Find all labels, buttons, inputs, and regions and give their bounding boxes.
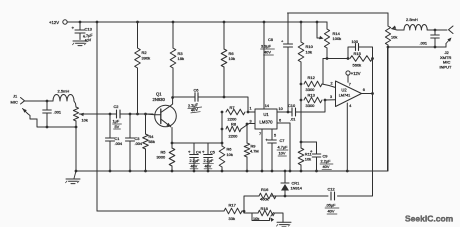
wire U2 pin 4 ground lead [346,103,348,171]
node tip-C1a [46,100,49,103]
wire feedback riser [322,59,324,85]
svg-text:7: 7 [259,132,261,136]
svg-text:5V: 5V [115,124,120,129]
node base-R2 [136,113,139,116]
capacitor C10 series to op amp [291,108,293,116]
svg-text:14: 14 [265,104,269,108]
svg-text:+12V: +12V [49,20,59,25]
svg-text:6: 6 [279,119,281,123]
svg-text:40V: 40V [205,165,212,169]
resistor R17 [224,208,242,214]
svg-text:6: 6 [363,88,365,92]
capacitor C8 coupling to level pot [287,13,289,44]
svg-text:INPUT: INPUT [440,64,453,69]
svg-text:.001: .001 [54,110,62,115]
wire R6 top lead [223,22,225,49]
svg-text:2.2μF: 2.2μF [204,159,214,163]
wire audio feed line top [288,12,389,14]
svg-text:10: 10 [279,107,283,111]
svg-text:2: 2 [331,82,333,86]
node gnd-U2pin4 [346,170,349,173]
resistor R11 [298,148,304,165]
svg-text:7: 7 [349,82,351,86]
node divider [243,210,246,213]
terminal +12V supply [63,20,67,24]
wire C6 to U1 pin 1 [198,97,255,112]
node gnd-R11 [300,170,303,173]
svg-text:400k: 400k [260,197,269,202]
svg-text:+: + [72,26,75,31]
node sleeve-cap [46,126,49,129]
svg-text:1N914: 1N914 [291,186,303,191]
svg-text:U2: U2 [341,88,347,93]
capacitor C2 series [116,110,118,118]
node column-R8 [221,128,224,131]
svg-text:3: 3 [250,120,252,124]
node collector [171,96,174,99]
resistor R15 feedback [350,56,373,62]
svg-text:4: 4 [349,104,351,108]
node rail-C13 [79,21,82,24]
wire R2 top lead [137,22,139,48]
node rail-R3 [172,21,175,24]
wire feedback top run [323,58,348,60]
node gnd-U1pin6 [289,170,292,173]
ground symbol left [74,171,76,179]
svg-text:U1: U1 [263,112,269,117]
resistor R12 [304,81,322,87]
jack J1 sleeve contact arrow [28,114,38,120]
node gnd-C3 [129,170,132,173]
node L2-C11 [434,29,437,32]
svg-text:560k: 560k [353,63,362,68]
diode CR1 1N914 [284,170,287,173]
wire +12V drop to bias network [96,22,98,211]
wire R18 right to ground [275,213,284,222]
svg-text:18k: 18k [178,56,184,61]
ground symbol right [277,221,291,223]
node R13-C10 [324,99,327,102]
svg-text:.01: .01 [290,117,295,122]
svg-text:10V: 10V [279,151,286,156]
wire signal to C2 [90,113,116,115]
wire U2 pin 7 supply [347,75,349,82]
capacitor C3 [129,114,131,138]
node R1-sleeve [75,126,78,129]
node rail-bias-drop [96,21,99,24]
node C6wire-R6 [223,96,226,99]
wire R1 bottom to ground rail [75,121,77,171]
node signal-C3 [129,113,132,116]
svg-text:C13: C13 [85,27,93,32]
node CR1-sidechain [284,195,287,198]
node rail-R2 [136,21,139,24]
node rail-U1pin14 [263,21,266,24]
ground rail [76,170,388,172]
wire R2 to base node [137,68,139,114]
svg-text:10k: 10k [306,50,312,55]
svg-text:.004: .004 [115,141,123,146]
svg-text:33k: 33k [229,216,235,221]
node bias-R13 [300,99,303,102]
svg-text:R6: R6 [227,147,232,152]
node column-R7 [221,111,224,114]
capacitor C13 [79,22,81,30]
svg-text:68k: 68k [149,139,155,144]
potentiometer R19 output level [385,26,390,45]
svg-text:10k: 10k [227,152,233,157]
capacitor C5 [207,143,209,154]
svg-text:R2: R2 [142,50,148,55]
svg-text:10k: 10k [229,56,235,61]
svg-text:3000: 3000 [157,155,166,160]
wire U1 pin 6 lead [277,123,290,171]
node C11 bottom [434,46,437,49]
svg-text:2.2μF: 2.2μF [190,159,200,163]
jack J2 tip contact [449,26,454,34]
node feedback-R14 [326,57,329,60]
wire collector to C6 [173,96,195,98]
capacitor C6 series [194,93,196,102]
IC U1 LM370 [255,109,277,129]
svg-text:R12: R12 [308,75,316,80]
wiper of R18 [271,213,274,217]
wire emitter to bypass caps [172,142,222,144]
svg-text:2.5mH: 2.5mH [58,89,70,94]
svg-text:J1: J1 [13,94,18,99]
wire jack sleeve run [388,46,446,48]
node rail left end [75,170,78,173]
svg-text:R8: R8 [231,122,237,127]
svg-text:C12: C12 [328,187,335,192]
wire Q1 collector to node [171,104,173,106]
svg-text:3300: 3300 [306,87,316,92]
ground below C13 [73,40,87,42]
wire pot bottom to ground [387,45,389,171]
resistor R3 [170,48,176,68]
wire R14 bottom lead [326,48,328,58]
capacitor C4 [193,143,195,154]
wire J1 sleeve run [37,119,76,127]
svg-text:+: + [202,150,205,155]
node bias-R12 [300,83,303,86]
svg-text:390k: 390k [142,56,151,61]
wire R3 to collector node [172,68,174,97]
wire R8 to U1 pin 3 [241,124,255,130]
svg-text:2200: 2200 [229,134,239,139]
svg-text:100k: 100k [333,36,342,41]
resistor R9 [246,124,248,143]
svg-text:R18: R18 [261,206,269,211]
resistor R4 [145,114,147,134]
svg-text:40V: 40V [328,209,335,214]
svg-text:LM741: LM741 [339,94,351,98]
svg-text:2.2μF: 2.2μF [321,159,332,164]
wire R13 to U2 pin 3 [325,99,336,101]
node gnd-C7 [271,170,274,173]
resistor R16 [259,193,276,199]
wire bias chain R10 to R12 R13 [300,62,302,142]
svg-text:40V: 40V [191,165,198,169]
capacitor .001 mic bypass [46,101,48,110]
svg-text:C7: C7 [280,138,285,143]
svg-text:R17: R17 [229,203,237,208]
wire R16 left to divider node [244,196,259,213]
node gnd-R4 [144,170,147,173]
svg-text:4.7M: 4.7M [250,149,259,154]
svg-text:+: + [310,149,313,154]
svg-text:C2: C2 [114,104,119,109]
jack J2 sleeve contact arrow [445,44,447,48]
node emitterwire-R7R8 column [221,142,224,145]
wire J1 tip to coupling node [25,100,54,102]
node feedback-output riser [371,57,374,60]
wire sidechain run [271,195,285,197]
svg-text:.001: .001 [420,41,428,46]
svg-text:4.7μF: 4.7μF [278,145,289,150]
capacitor C9 [316,142,318,154]
wire C2 to base [120,113,153,115]
svg-text:2N930: 2N930 [153,97,166,102]
wire R17 to node [242,210,244,212]
capacitor .001 output [434,30,436,35]
svg-text:3300: 3300 [306,103,316,108]
resistor R5 emitter [169,148,175,166]
svg-text:40V: 40V [323,164,330,169]
node gnd-C5 [207,170,210,173]
resistor R13 [304,97,322,103]
svg-text:40V: 40V [191,107,199,113]
svg-text:3: 3 [330,95,332,99]
wire R3 top lead [172,22,174,48]
svg-text:40V: 40V [264,50,271,55]
wire R6 bottom lead [223,67,225,97]
node output-C8 [287,111,290,114]
svg-text:C4: C4 [196,151,201,155]
node output-sidechain [371,92,374,95]
svg-text:Q1: Q1 [156,92,162,97]
wire U1 pin 5 lead [271,129,273,140]
node gnd-C9 [315,170,318,173]
wiper of R1 [79,113,83,117]
wire R10 top lead [300,22,302,42]
svg-text:+: + [281,39,284,44]
wire R12 to U2 pin 2 [322,84,336,88]
node gnd-R6b [221,170,224,173]
svg-text:R13: R13 [308,93,316,98]
svg-text:10k: 10k [391,35,397,40]
wire output level line [387,13,389,26]
wire U1 pin 7 ground lead [261,129,263,171]
wire rail to jack sleeve riser [387,47,389,171]
svg-text:1μF: 1μF [113,119,120,124]
svg-text:C8: C8 [268,37,273,42]
svg-text:5: 5 [274,134,276,138]
node R7 right [247,111,250,114]
node bias-R11 [300,141,303,144]
svg-text:R16: R16 [261,187,269,192]
svg-text:1: 1 [250,107,252,111]
wire R7 R8 left column [221,112,223,146]
wire R14 top lead [317,22,327,29]
resistor R6b lower [219,146,225,167]
wire U1 pin 14 supply lead [263,22,265,109]
svg-text:3.3μF: 3.3μF [261,44,272,49]
svg-text:MIC: MIC [11,100,18,105]
node base-R4 [144,113,147,116]
svg-text:C10: C10 [288,103,296,108]
wiper of R14 [317,22,320,38]
node gnd-R9 [246,170,249,173]
node rail-R14 [316,21,319,24]
node rail-R6 [223,21,226,24]
node R8-R9 [246,123,249,126]
svg-text:10k: 10k [82,118,88,123]
capacitor C1 [109,114,111,138]
wire L2 to jack J2 [427,29,447,31]
svg-text:SeekIC.com: SeekIC.com [405,214,454,224]
resistor R10 [298,42,304,62]
wire Q1 emitter down [171,128,173,144]
emitter lead Q1 [161,119,171,127]
wire U2 output pin 6 [362,93,373,95]
wire +12V top rail [67,21,327,23]
node gnd-C4 [193,170,196,173]
node gnd-C1 [109,170,112,173]
node rail-R10 [300,21,303,24]
svg-text:LM370: LM370 [259,120,273,125]
wire U1 pin 10 output [277,111,292,113]
node gnd-U1pin7 [261,170,264,173]
svg-text:.05μF: .05μF [326,203,337,208]
svg-text:+12V: +12V [351,71,361,76]
svg-text:2.5mH: 2.5mH [406,17,418,22]
svg-text:.004: .004 [135,141,143,146]
svg-text:C5: C5 [210,151,215,155]
potentiometer R18 threshold [258,210,275,216]
node gnd-R5 [171,170,174,173]
svg-text:R15: R15 [354,51,362,56]
node feedback-cap [347,57,350,60]
svg-text:R10: R10 [306,44,314,49]
potentiometer R14 [324,29,329,48]
svg-text:10k: 10k [305,157,311,162]
wire R11 node to C9 [301,141,317,143]
node emitter [171,142,174,145]
wire feedback to output [372,59,374,94]
wire bottom bias run [97,210,224,212]
wire L1 to pot R1 [74,101,76,107]
svg-text:100: 100 [352,39,359,44]
node pot bottom jack sleeve [387,46,390,49]
svg-text:R7: R7 [230,105,236,110]
resistor R6 [221,49,227,67]
wire sidechain drop [338,94,373,197]
wire C10 to pin3 node [296,100,326,112]
resistor R8 [226,126,241,132]
resistor R2 [135,48,141,68]
svg-text:+: + [188,150,191,155]
potentiometer R1 mic gain [73,107,78,121]
svg-text:C6: C6 [194,88,199,93]
node signal-C1 [109,113,112,116]
capacitor C12 series [330,192,332,200]
wiper of output pot [392,26,397,29]
resistor R7 [226,109,245,115]
op-amp U2 LM741 [336,81,362,107]
capacitor 100pF feedback [348,47,355,59]
